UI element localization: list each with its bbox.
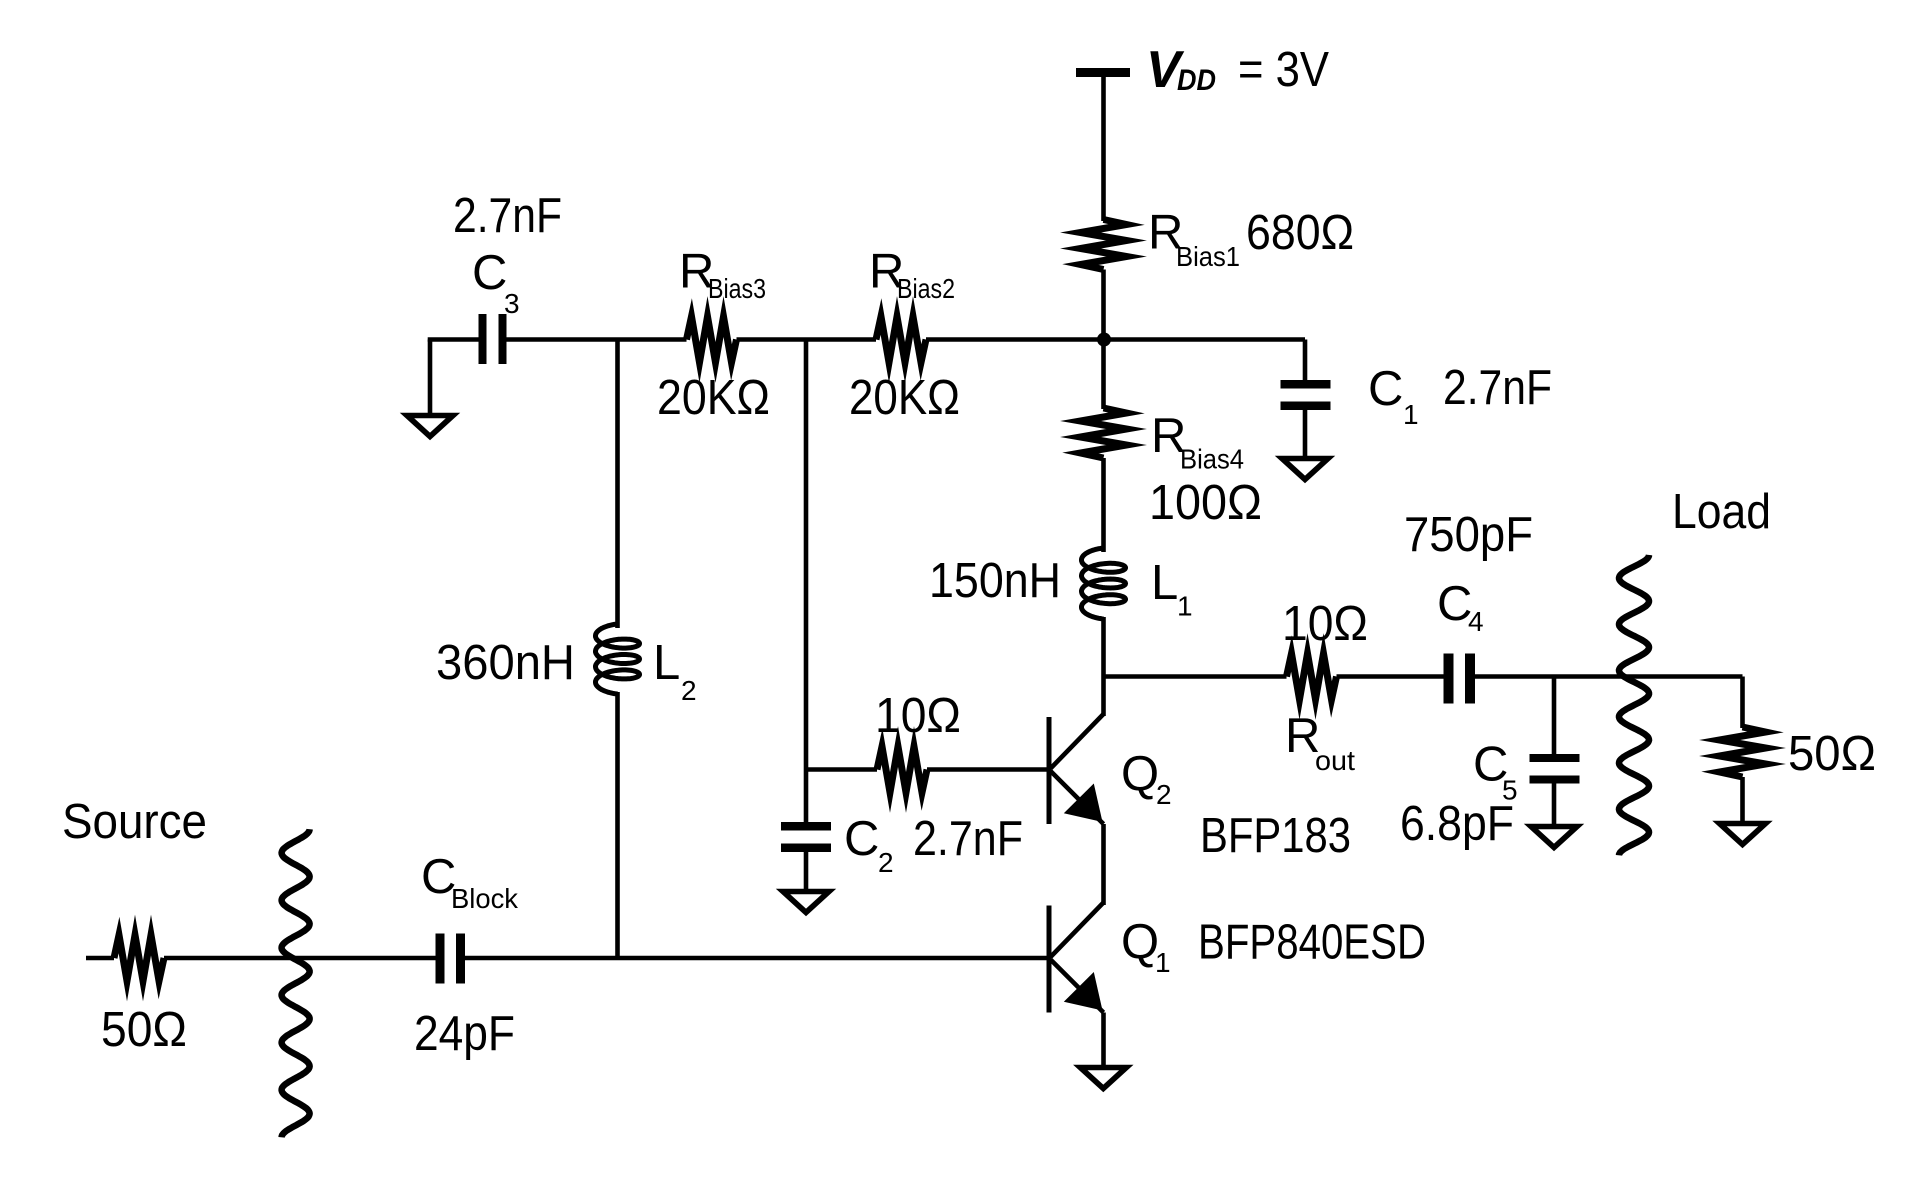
svg-text:Bias1: Bias1 xyxy=(1176,241,1240,272)
wire bias to C2 node xyxy=(804,340,809,823)
capacitor C5 plate top xyxy=(1530,754,1580,762)
capacitor C4 plate left xyxy=(1444,654,1454,704)
capacitor C4 plate right xyxy=(1465,654,1475,704)
wire RBias2 to C1 corner xyxy=(926,337,1305,342)
wire source R to CBlock xyxy=(164,956,436,961)
svg-text:DD: DD xyxy=(1177,64,1216,97)
wire C3 to RBias3 xyxy=(507,337,687,342)
svg-text:100Ω: 100Ω xyxy=(1149,476,1262,530)
svg-text:Q: Q xyxy=(1121,747,1159,801)
wire ground stub to C3 xyxy=(428,337,479,342)
transistor Q2 base bar xyxy=(1047,717,1052,824)
svg-text:10Ω: 10Ω xyxy=(875,689,961,743)
wire L2 to base rail xyxy=(615,692,620,958)
inductor L1 150nH xyxy=(1082,548,1126,619)
transistor Q1 collector xyxy=(1051,903,1104,958)
wire Rout to C4 xyxy=(1337,674,1444,679)
svg-text:C: C xyxy=(844,812,879,866)
svg-text:Bias3: Bias3 xyxy=(708,273,766,304)
ground load xyxy=(1720,824,1766,845)
svg-text:Source: Source xyxy=(62,795,207,849)
svg-text:2: 2 xyxy=(1156,779,1172,810)
svg-text:2.7nF: 2.7nF xyxy=(913,812,1023,866)
wire collector to Rout xyxy=(1104,674,1287,679)
svg-text:1: 1 xyxy=(1403,399,1419,430)
svg-text:3: 3 xyxy=(504,288,520,319)
resistor Rout 10ohm xyxy=(1287,654,1337,700)
svg-text:4: 4 xyxy=(1468,606,1484,637)
svg-text:750pF: 750pF xyxy=(1404,508,1533,562)
wire C5 to ground xyxy=(1552,784,1557,827)
svg-text:BFP840ESD: BFP840ESD xyxy=(1198,916,1426,970)
svg-text:C: C xyxy=(1368,362,1403,416)
wire node to RBias4 xyxy=(1101,340,1106,410)
wire RBias4 to L1 xyxy=(1101,458,1106,552)
resistor RBias2 20K xyxy=(876,317,926,363)
resistor load 50ohm xyxy=(1720,727,1766,777)
svg-text:out: out xyxy=(1315,745,1355,776)
resistor RBias1 680ohm xyxy=(1081,220,1127,270)
svg-text:Q: Q xyxy=(1121,915,1159,969)
svg-text:680Ω: 680Ω xyxy=(1246,206,1354,260)
resistor RBias4 100ohm xyxy=(1081,408,1127,458)
wire C4 to load corner xyxy=(1475,674,1743,679)
wire C1 to ground xyxy=(1303,410,1308,458)
svg-text:C: C xyxy=(472,246,507,300)
wire Q1 emitter to ground xyxy=(1101,1013,1106,1068)
svg-text:Bias4: Bias4 xyxy=(1180,444,1244,475)
capacitor C3 plate left xyxy=(479,314,487,364)
capacitor CBlock plate right xyxy=(456,934,465,984)
svg-text:2: 2 xyxy=(681,675,697,706)
node bias junction xyxy=(1097,333,1111,347)
svg-text:Bias2: Bias2 xyxy=(897,273,955,304)
wire R10 to Q2 base xyxy=(927,767,1049,772)
wire bias to L2 xyxy=(615,340,620,629)
ground Q1 emitter xyxy=(1080,1068,1126,1089)
source port squiggle xyxy=(282,829,310,1137)
wire C3 to ground xyxy=(428,340,433,415)
resistor RBias3 20K xyxy=(687,317,737,363)
svg-text:2: 2 xyxy=(878,847,894,878)
svg-text:50Ω: 50Ω xyxy=(1788,727,1876,781)
wire corner to 50ohm xyxy=(1740,677,1745,729)
wire L1 to collector node xyxy=(1101,617,1106,716)
transistor Q1 emitter arrow xyxy=(1064,972,1103,1011)
wire Q2 emitter to Q1 collector xyxy=(1101,824,1106,905)
svg-text:L: L xyxy=(653,636,680,690)
capacitor C2 plate top xyxy=(781,822,831,831)
wire RBias1 to node xyxy=(1101,270,1106,342)
wire C2 node to R10 xyxy=(806,767,877,772)
wire out node to C5 xyxy=(1552,677,1557,755)
transistor Q2 emitter xyxy=(1051,771,1104,824)
wire source stub xyxy=(86,956,114,961)
svg-text:L: L xyxy=(1151,556,1178,610)
ground C1 xyxy=(1282,459,1328,480)
inductor L2 360nH xyxy=(596,624,640,694)
transistor Q1 base bar xyxy=(1047,906,1052,1013)
svg-text:= 3V: = 3V xyxy=(1238,43,1329,97)
svg-text:Load: Load xyxy=(1672,485,1771,539)
svg-text:150nH: 150nH xyxy=(929,554,1061,608)
wire RBias3 to RBias2 xyxy=(737,337,877,342)
svg-text:20KΩ: 20KΩ xyxy=(849,371,960,425)
svg-text:1: 1 xyxy=(1155,947,1171,978)
svg-text:10Ω: 10Ω xyxy=(1282,597,1368,651)
svg-text:50Ω: 50Ω xyxy=(101,1003,187,1057)
svg-text:6.8pF: 6.8pF xyxy=(1400,797,1514,851)
transistor Q2 emitter arrow xyxy=(1064,784,1103,823)
svg-text:1: 1 xyxy=(1177,591,1193,622)
svg-text:2.7nF: 2.7nF xyxy=(453,189,562,243)
ground C3 xyxy=(407,416,453,437)
svg-text:20KΩ: 20KΩ xyxy=(657,371,770,425)
wire VDD to RBias1 xyxy=(1101,77,1106,221)
load port squiggle xyxy=(1619,555,1649,855)
ground C2 xyxy=(783,892,829,913)
svg-text:2.7nF: 2.7nF xyxy=(1443,361,1552,415)
VDD supply bar xyxy=(1076,68,1130,77)
capacitor C5 plate bottom xyxy=(1530,776,1580,784)
wire 50ohm to ground xyxy=(1740,777,1745,823)
capacitor CBlock plate left xyxy=(436,934,445,984)
wire CBlock to Q1 base xyxy=(465,956,1049,961)
capacitor C2 plate bottom xyxy=(781,844,831,853)
capacitor C1 plate bottom xyxy=(1281,402,1331,411)
wire C2 to ground xyxy=(804,852,809,891)
resistor source 50ohm xyxy=(114,935,164,981)
ground C5 xyxy=(1531,827,1577,848)
svg-text:24pF: 24pF xyxy=(414,1007,515,1061)
svg-text:BFP183: BFP183 xyxy=(1200,809,1351,863)
wire node to C1 xyxy=(1303,340,1308,381)
transistor Q1 emitter xyxy=(1051,960,1104,1013)
svg-text:Block: Block xyxy=(451,883,519,914)
capacitor C1 plate top xyxy=(1281,380,1331,389)
svg-text:360nH: 360nH xyxy=(436,636,575,690)
resistor 10ohm base xyxy=(877,747,927,793)
capacitor C3 plate right xyxy=(499,314,507,364)
transistor Q2 collector xyxy=(1051,714,1104,769)
